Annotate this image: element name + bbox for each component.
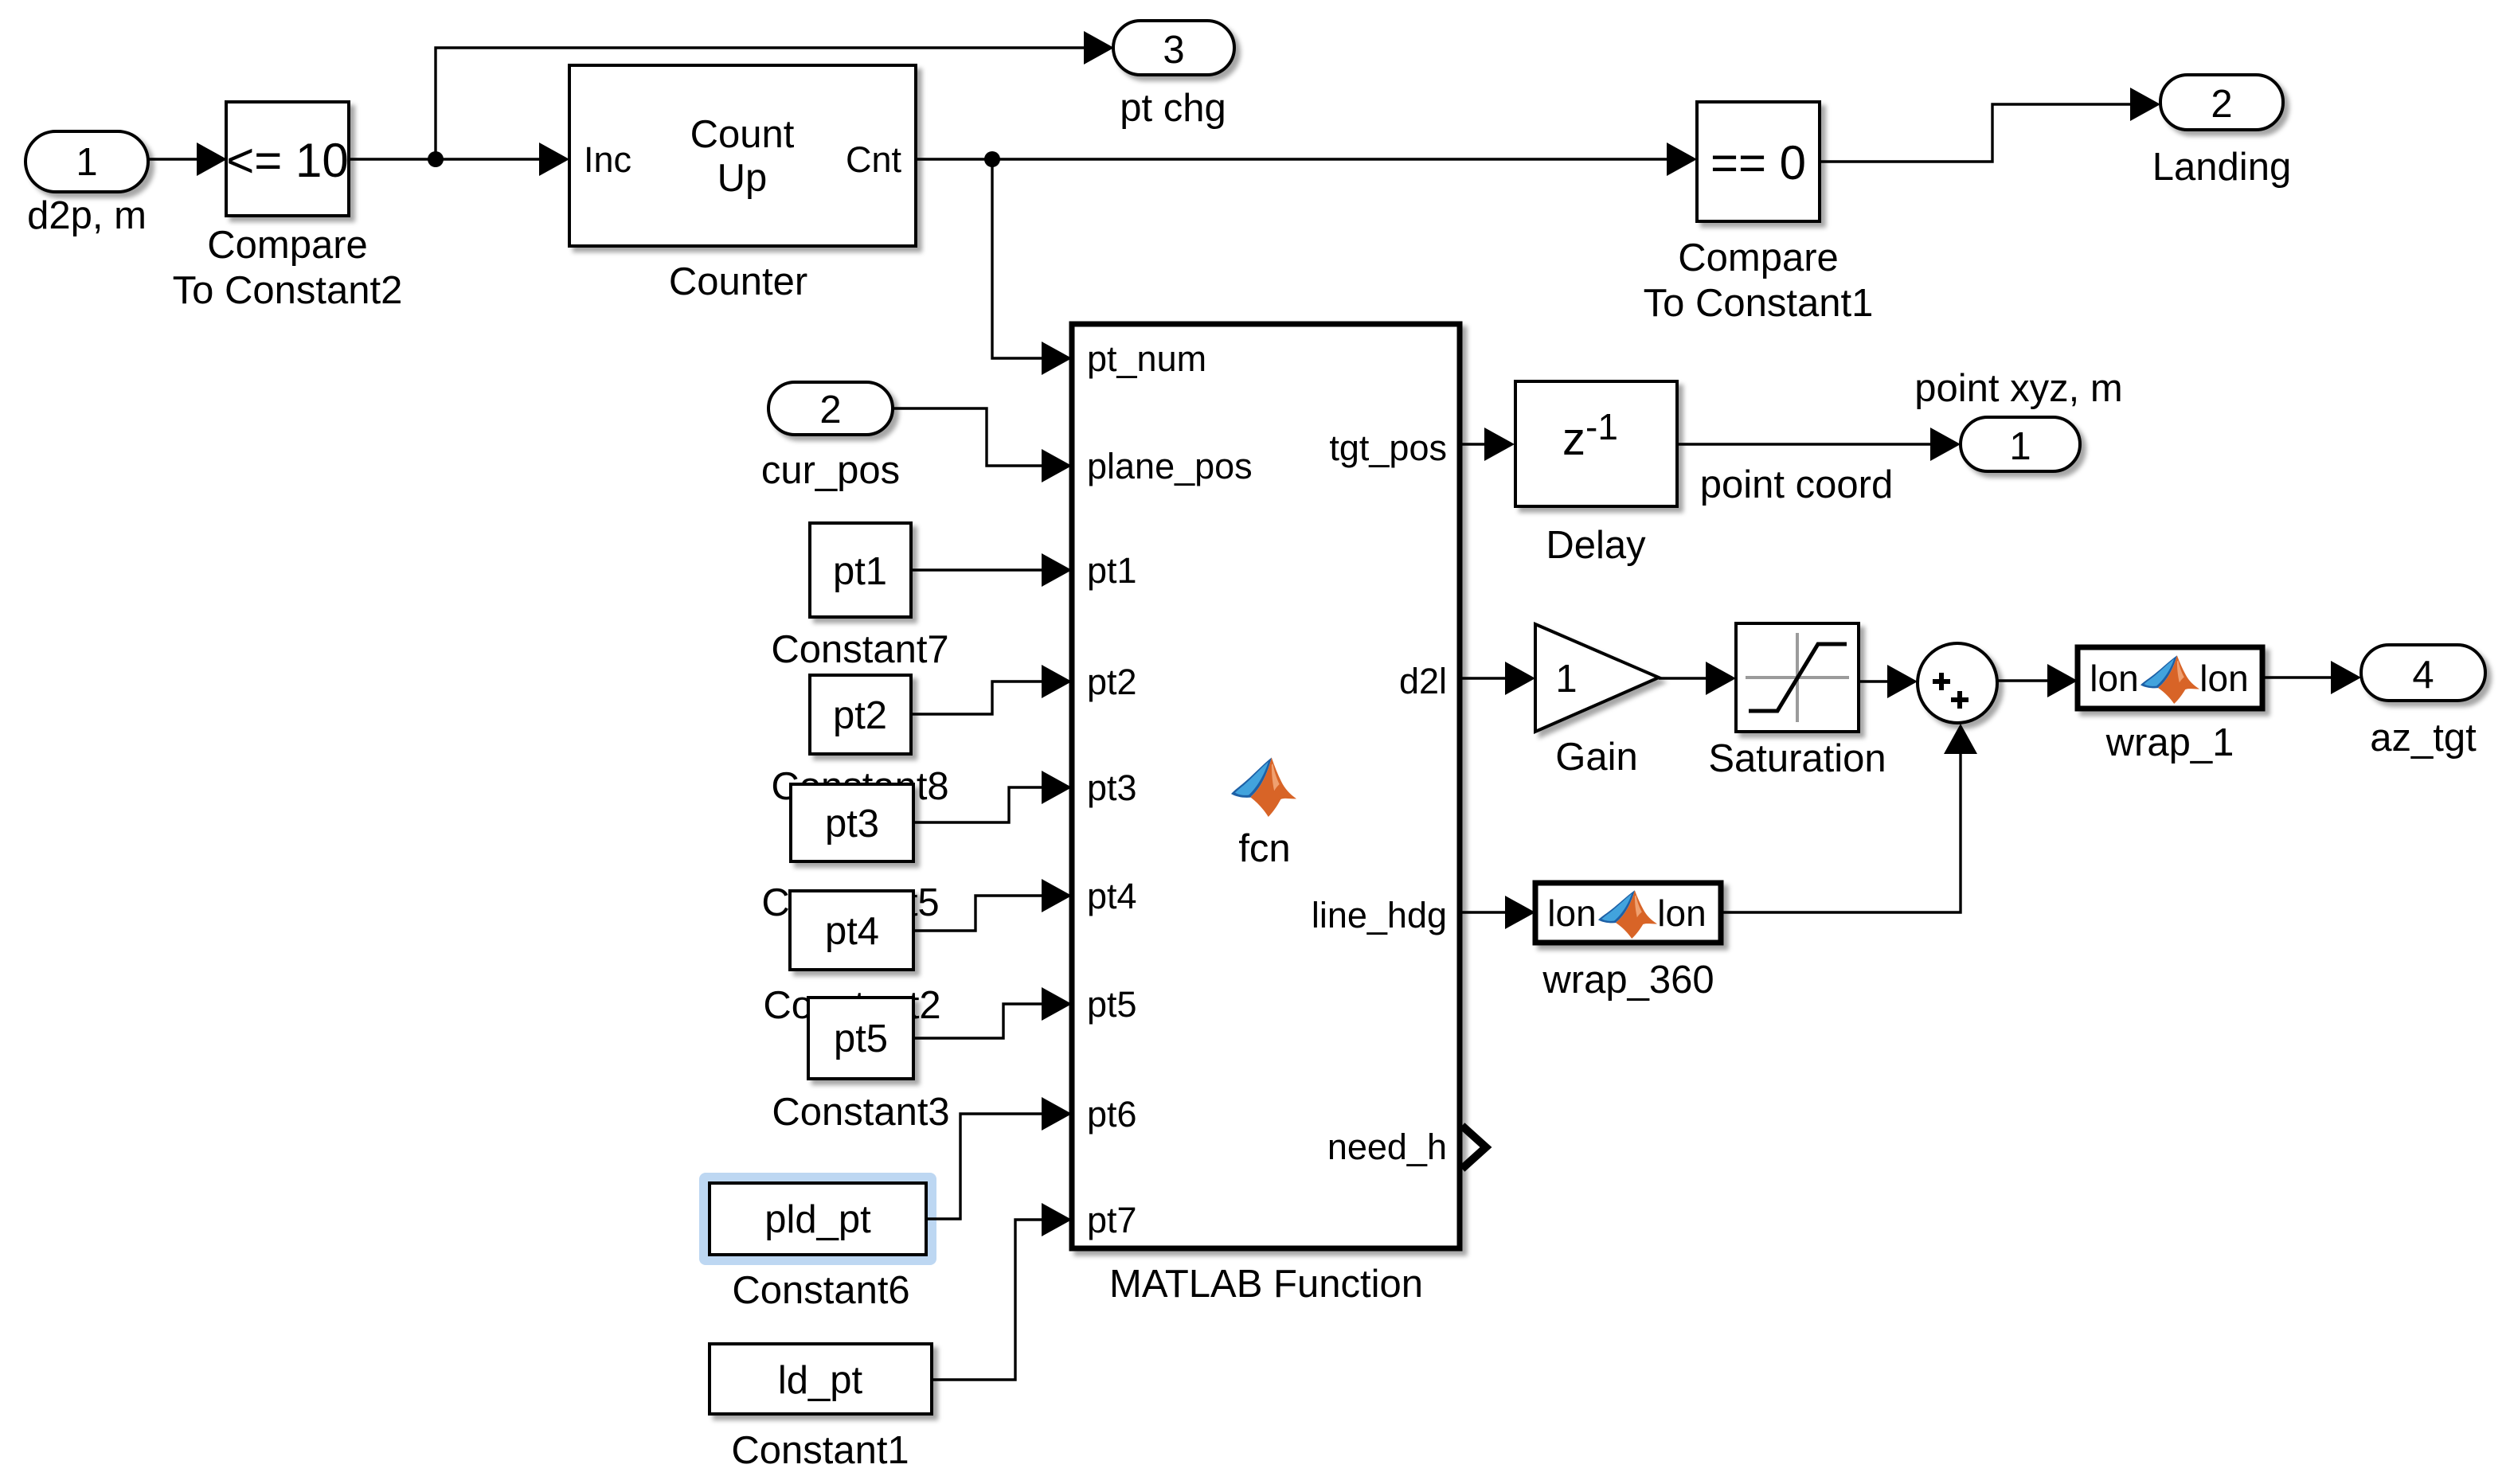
svg-text:Saturation: Saturation [1708, 737, 1886, 780]
svg-text:pt4: pt4 [825, 910, 879, 953]
svg-text:tgt_pos: tgt_pos [1329, 428, 1447, 468]
svg-text:pt7: pt7 [1087, 1200, 1137, 1240]
inport 1 "d2p, m" [25, 131, 148, 237]
block Compare To Constant2 (<= 10) [173, 102, 403, 312]
wire Saturation to Sum [1859, 665, 1918, 698]
svg-text:cur_pos: cur_pos [761, 449, 900, 492]
svg-text:pt3: pt3 [825, 803, 879, 845]
svg-text:pt5: pt5 [834, 1017, 888, 1060]
svg-text:2: 2 [2211, 83, 2232, 126]
outport 2 "Landing" [2152, 75, 2291, 189]
wire line_hdg to wrap_360 [1460, 896, 1535, 929]
svg-text:wrap_1: wrap_1 [2105, 721, 2234, 764]
svg-text:Count: Count [690, 113, 795, 156]
svg-text:Constant3: Constant3 [772, 1091, 949, 1134]
junction node A [428, 151, 444, 167]
svg-text:lon: lon [2199, 658, 2248, 699]
svg-text:pld_pt: pld_pt [764, 1198, 871, 1241]
svg-text:pt3: pt3 [1087, 767, 1137, 808]
wire pt1 to fcn pt1 [911, 553, 1072, 587]
constant pt3 (Constant5) [761, 784, 939, 924]
svg-text:pt1: pt1 [1087, 550, 1137, 591]
block MATLAB Function (fcn) [1072, 324, 1460, 1306]
svg-text:1: 1 [2009, 425, 2031, 468]
svg-text:pt2: pt2 [833, 694, 887, 737]
svg-text:3: 3 [1163, 29, 1184, 72]
constant pt4 (Constant2) [763, 891, 940, 1027]
wire ld_pt to fcn pt7 [932, 1203, 1072, 1380]
block Compare To Constant1 (== 0) [1644, 102, 1874, 325]
block wrap_1 (lon->lon) [2078, 647, 2262, 764]
outport 3 "pt chg" [1113, 21, 1234, 130]
svg-text:Counter: Counter [669, 260, 807, 303]
svg-text:az_tgt: az_tgt [2370, 717, 2477, 760]
block Gain (1) [1535, 624, 1659, 779]
wire junction B down to pt_num [992, 159, 1072, 375]
svg-text:Landing: Landing [2152, 146, 2291, 189]
svg-text:point xyz, m: point xyz, m [1914, 367, 2122, 410]
svg-text:To Constant2: To Constant2 [173, 269, 403, 312]
wire d2l to Gain [1460, 662, 1535, 695]
svg-text:== 0: == 0 [1710, 136, 1806, 189]
inport 2 "cur_pos" [761, 382, 900, 492]
svg-text:lon: lon [2090, 658, 2138, 699]
svg-text:Constant1: Constant1 [731, 1429, 909, 1472]
wire pt4 to fcn pt4 [913, 879, 1072, 931]
sum block (+ +) [1918, 643, 1997, 723]
svg-text:2: 2 [819, 389, 841, 432]
wire wrap_1 to outport4 [2262, 661, 2361, 694]
svg-text:To Constant1: To Constant1 [1644, 282, 1874, 325]
wire Sum to wrap_1 [1997, 664, 2078, 697]
svg-text:line_hdg: line_hdg [1312, 895, 1447, 935]
svg-text:Gain: Gain [1555, 736, 1638, 779]
svg-text:pt chg: pt chg [1120, 87, 1226, 130]
svg-text:pt4: pt4 [1087, 876, 1137, 916]
svg-text:pt5: pt5 [1087, 984, 1137, 1025]
svg-text:Compare: Compare [207, 224, 368, 267]
svg-text:wrap_360: wrap_360 [1542, 959, 1714, 1002]
svg-text:d2p, m: d2p, m [27, 194, 147, 237]
block Delay (z^-1) [1515, 381, 1677, 567]
svg-text:4: 4 [2412, 654, 2434, 697]
svg-text:lon: lon [1547, 892, 1596, 934]
wire pt5 to fcn pt5 [913, 987, 1072, 1038]
svg-text:<= 10: <= 10 [226, 134, 349, 187]
wire tgt_pos to Delay [1460, 428, 1515, 461]
wire pt3 to fcn pt3 [913, 771, 1072, 822]
svg-text:point coord: point coord [1700, 463, 1893, 506]
svg-text:1: 1 [1555, 658, 1577, 701]
constant pt2 (Constant8) [771, 675, 948, 808]
svg-text:plane_pos: plane_pos [1087, 446, 1253, 486]
svg-text:pt6: pt6 [1087, 1094, 1137, 1134]
constant pld_pt (Constant6, selected) [699, 1173, 936, 1312]
svg-text:ld_pt: ld_pt [778, 1359, 863, 1402]
svg-text:Cnt: Cnt [846, 139, 902, 180]
block Saturation [1708, 623, 1886, 780]
svg-text:1: 1 [76, 141, 97, 184]
block wrap_360 (lon->lon) [1535, 883, 1721, 1002]
junction node B [984, 151, 1000, 167]
svg-text:Up: Up [717, 157, 768, 200]
outport 1 "point xyz, m" [1914, 367, 2122, 471]
svg-text:MATLAB Function: MATLAB Function [1109, 1263, 1423, 1306]
svg-text:lon: lon [1657, 892, 1706, 934]
wire inport1 to CompareToConstant2 [148, 143, 227, 176]
svg-text:Compare: Compare [1678, 236, 1839, 279]
constant pt5 (Constant3) [772, 998, 949, 1134]
svg-text:Constant7: Constant7 [771, 628, 948, 671]
svg-text:need_h: need_h [1327, 1127, 1447, 1167]
wire cur_pos to plane_pos [893, 408, 1072, 482]
wire junction up to outport3 [436, 31, 1114, 159]
block Counter (Count Up) [569, 65, 916, 303]
wire Delay to outport1, label "point coord" [1677, 428, 1961, 506]
wire wrap_360 up to Sum bottom input [1721, 724, 1977, 912]
wire CompareToConstant2 to junction and Counter [349, 143, 569, 176]
constant ld_pt (Constant1) [710, 1344, 932, 1472]
svg-text:Constant6: Constant6 [732, 1269, 909, 1312]
svg-text:pt_num: pt_num [1087, 338, 1206, 379]
wire Counter Cnt to junction B and CompareToConstant1 [916, 143, 1697, 176]
svg-text:Delay: Delay [1546, 524, 1646, 567]
wire pld_pt to fcn pt6 [926, 1097, 1072, 1219]
outport 4 "az_tgt" [2361, 645, 2485, 760]
wire CompareToConstant1 to outport2 Landing [1820, 88, 2160, 162]
svg-text:d2l: d2l [1399, 661, 1447, 701]
svg-text:Inc: Inc [584, 139, 631, 180]
wire pt2 to fcn pt2 [911, 665, 1072, 714]
need_h unconnected output chevron [1462, 1126, 1486, 1169]
wire Gain to Saturation [1659, 662, 1736, 695]
svg-text:pt1: pt1 [833, 550, 887, 593]
svg-text:fcn: fcn [1238, 827, 1290, 870]
svg-text:pt2: pt2 [1087, 662, 1137, 702]
constant pt1 (Constant7) [771, 523, 948, 671]
